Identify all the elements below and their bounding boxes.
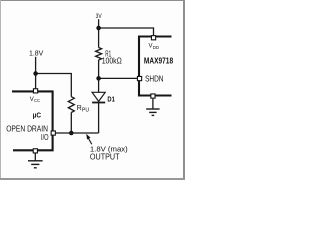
microcontroller box [12,91,53,150]
ground MAX9718 [152,99,154,109]
wire R1 bottom lead [98,60,100,78]
wire open-drain I/O net [56,132,99,134]
node output arrow [88,138,92,145]
wire R1 top lead [98,28,100,48]
wire D1 cathode lead down to I/O net [98,103,100,134]
svg-text:MAX9718: MAX9718 [144,56,173,66]
image frame border [0,0,185,1]
wire RPU bottom lead [70,112,72,133]
svg-text:PU: PU [82,107,90,113]
svg-text:I/O: I/O [41,133,49,142]
svg-text:OUTPUT: OUTPUT [90,153,120,162]
wire SHDN net [99,77,138,79]
diode D1 [92,92,105,101]
pin SHDN of MAX9718 [137,76,141,80]
svg-text:SHDN: SHDN [145,74,163,83]
wire 3V rail to VDD [99,28,154,35]
wire 3V stub [98,19,100,28]
node junction SHDN/D1 [96,76,101,81]
wire VCC stub [35,74,37,89]
resistor RPU [68,97,74,113]
wire D1 anode lead [98,78,100,92]
pin VCC of uC [33,89,37,93]
wire 1.8V stub [35,57,37,74]
ground uC [34,154,36,161]
svg-text:DD: DD [153,45,160,50]
pin I/O square of uC [51,131,55,135]
wire 1.8V to RPU [36,74,72,97]
node junction 3V [96,26,101,31]
node junction RPU/IO [69,131,74,136]
pin GND square of uC [33,149,37,153]
amplifier U1 MAX9718 box [139,37,172,96]
svg-text:100kΩ: 100kΩ [102,57,122,66]
svg-text:1.8V: 1.8V [29,48,43,57]
svg-text:D1: D1 [107,95,114,104]
svg-text:µC: µC [33,112,41,119]
pin GND square of MAX9718 [151,94,155,98]
resistor R1 [96,48,102,61]
svg-text:3V: 3V [96,13,103,20]
pin VDD of MAX9718 [151,36,155,40]
svg-text:CC: CC [34,98,41,103]
node junction 1.8V [33,71,38,76]
